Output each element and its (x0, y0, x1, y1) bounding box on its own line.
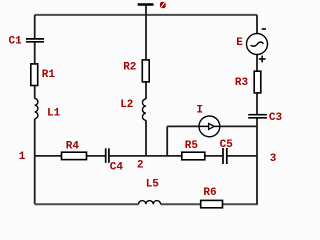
svg-text:I: I (196, 104, 203, 116)
svg-text:1: 1 (19, 151, 26, 163)
wire: left vertical, L1 to bottom corner (34, 119, 36, 205)
wire: bottom horizontal rail right part (161, 203, 258, 205)
wire: top horizontal rail (35, 14, 257, 16)
svg-text:C5: C5 (220, 139, 234, 151)
svg-text:E: E (236, 37, 243, 49)
inductor L5 (139, 201, 161, 205)
node label 0 (160, 2, 166, 8)
svg-text:2: 2 (137, 159, 144, 171)
capacitor C1 (26, 39, 44, 42)
wire: middle vertical, bar 0 to L2 (145, 5, 147, 100)
svg-text:L5: L5 (146, 179, 160, 191)
current source I (199, 116, 220, 137)
capacitor C3 (248, 115, 267, 118)
wire: left vertical, top to C1 (34, 15, 36, 38)
svg-text:R6: R6 (203, 187, 216, 199)
inductor L2 (142, 99, 146, 120)
svg-text:R2: R2 (123, 61, 136, 73)
svg-text:R5: R5 (185, 140, 199, 152)
wire: right vertical, C3 to bottom corner (256, 118, 258, 204)
voltage source E (247, 34, 268, 55)
plus sign of E (259, 56, 266, 63)
minus sign of E (262, 28, 266, 30)
svg-text:C1: C1 (8, 36, 22, 48)
svg-text:3: 3 (270, 153, 277, 165)
resistor R6 (201, 200, 223, 207)
wire: stub from middle horizontal up to current source branch (166, 126, 168, 155)
wire: middle horizontal C4 to C5 (110, 155, 223, 157)
capacitor C4 (106, 148, 109, 163)
wire: right vertical, E source to C3 (256, 54, 258, 114)
svg-text:L1: L1 (47, 108, 61, 120)
svg-text:R3: R3 (235, 77, 249, 89)
wire: bottom horizontal rail left part (35, 203, 139, 205)
resistor R1 (31, 64, 38, 86)
svg-text:C3: C3 (269, 112, 283, 124)
inductor L1 (35, 99, 38, 119)
svg-text:R1: R1 (42, 69, 56, 81)
svg-text:R4: R4 (66, 141, 80, 153)
resistor R5 (182, 152, 205, 160)
ground / reference bar node 0 (138, 3, 154, 5)
wire: middle vertical, L2 to node 2 (145, 120, 147, 156)
capacitor C5 (223, 148, 227, 164)
wire: left vertical, C1 to L1 (34, 42, 36, 98)
wire: current source branch horizontal (167, 125, 257, 127)
wire: middle horizontal node1 to C4 (35, 155, 105, 157)
wire: right vertical, top to E source (256, 15, 258, 34)
svg-text:C4: C4 (110, 161, 124, 173)
resistor R3 (254, 71, 261, 93)
resistor R2 (142, 60, 149, 82)
resistor R4 (62, 152, 87, 159)
svg-text:L2: L2 (120, 99, 133, 111)
wire: middle horizontal C5 to node 3 (227, 155, 257, 157)
